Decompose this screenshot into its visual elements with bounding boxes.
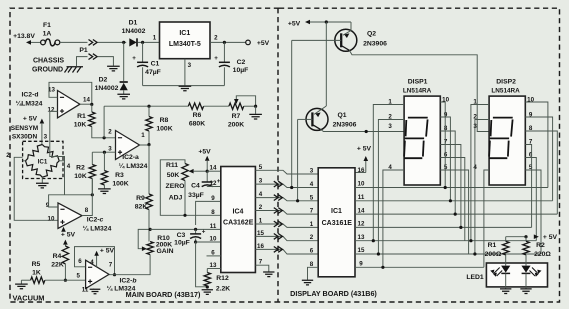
- svg-text:100K: 100K: [156, 126, 172, 133]
- wire DISP1 pin 5: [440, 170, 468, 254]
- wire IC2-b feedback pin 6 loop: [75, 247, 115, 275]
- svg-text:IC1: IC1: [331, 208, 342, 215]
- wire fuse to P1: [60, 41, 88, 43]
- wire interconnect row 1: [255, 170, 318, 174]
- wire +5V node to IC4 pin 14: [207, 170, 221, 172]
- wire R1 to IC2-a pin 2: [92, 127, 116, 138]
- svg-text:CHASSIS: CHASSIS: [33, 58, 64, 65]
- capacitor C4 33uF: [206, 171, 208, 182]
- svg-text:+ 5V: + 5V: [543, 234, 558, 241]
- svg-text:+: +: [214, 55, 218, 62]
- wire Q1 base: [298, 118, 313, 120]
- svg-text:9: 9: [211, 195, 215, 202]
- regulator IC1 LM340T-5: [160, 22, 211, 59]
- main board dashed border: [10, 8, 279, 302]
- svg-text:1N4002: 1N4002: [122, 28, 146, 35]
- svg-text:2.2K: 2.2K: [216, 286, 230, 293]
- svg-text:D1: D1: [129, 20, 138, 27]
- wire R10 wiper to pin 11 bus: [138, 229, 150, 248]
- wire segment bus 5: [355, 240, 536, 242]
- bridge resistor bottom-left: [26, 161, 43, 177]
- svg-text:1: 1: [310, 221, 314, 228]
- svg-text:R2: R2: [536, 242, 545, 249]
- wire Q2 base: [292, 39, 342, 41]
- svg-text:1: 1: [259, 218, 263, 225]
- svg-text:1: 1: [141, 132, 145, 139]
- resistor R2 10K: [91, 152, 93, 164]
- display DISP2 LN514RA: [489, 96, 525, 185]
- wire DISP1 pin 4: [383, 170, 404, 267]
- potentiometer R11 50K ZERO ADJ: [182, 164, 188, 181]
- svg-text:12: 12: [48, 107, 55, 114]
- svg-text:1A: 1A: [43, 31, 52, 38]
- wire IC1 pin 8 to ground: [308, 267, 319, 280]
- svg-text:+5V: +5V: [198, 149, 211, 156]
- svg-text:+ 5V: + 5V: [61, 232, 76, 239]
- ground below D2: [117, 94, 130, 99]
- wire DISP2 pin 5: [525, 170, 541, 254]
- svg-text:R11: R11: [166, 162, 178, 169]
- wire P1 to D1: [98, 41, 127, 43]
- wire DISP2 pin 6: [525, 158, 536, 241]
- svg-text:C3: C3: [177, 232, 186, 239]
- svg-text:10: 10: [48, 216, 55, 223]
- svg-text:5: 5: [259, 164, 263, 171]
- svg-text:Q1: Q1: [337, 112, 346, 119]
- ground at P1: [107, 66, 120, 71]
- svg-text:15: 15: [358, 247, 365, 254]
- svg-text:16: 16: [257, 243, 264, 250]
- wire interconnect row 5: [255, 224, 318, 227]
- svg-text:4: 4: [90, 259, 94, 266]
- svg-text:10µF: 10µF: [233, 67, 249, 74]
- wire Q2 collector to DISP2 pin 3: [349, 50, 489, 131]
- svg-text:2: 2: [259, 204, 263, 211]
- wire DISP1 pin 6: [440, 158, 465, 241]
- svg-text:10: 10: [358, 181, 365, 188]
- svg-text:4: 4: [67, 163, 71, 170]
- node +5V output terminal: [246, 40, 251, 45]
- svg-text:R4: R4: [53, 253, 62, 260]
- ground at R5 vacuum port: [20, 280, 22, 284]
- wire Q1 collector to DISP1 pin 3: [321, 129, 405, 131]
- wire IC2-c feedback pin 9 loop: [49, 195, 93, 207]
- svg-text:6: 6: [310, 248, 314, 255]
- wire LED +5V feed: [506, 236, 526, 238]
- wire C3 to IC4 pin 10: [196, 241, 221, 243]
- IC2-b +5V supply pin 4: [96, 255, 98, 267]
- wire IC2-c output: [82, 179, 92, 216]
- connector chevron row 2: [274, 181, 283, 187]
- svg-text:12: 12: [210, 180, 217, 187]
- svg-text:11: 11: [358, 194, 365, 201]
- wire IC2-d pin 12 to sensor pin 4 node: [50, 111, 65, 160]
- wire Q1 base to IC4 pin 4 row: [297, 119, 299, 200]
- wire DISP2 pin 1: [471, 105, 489, 241]
- svg-text:3: 3: [388, 123, 392, 130]
- wire segment bus 3: [355, 213, 557, 215]
- svg-text:220Ω: 220Ω: [534, 251, 551, 258]
- svg-text:IC2-c: IC2-c: [87, 217, 104, 224]
- svg-text:33µF: 33µF: [188, 192, 204, 199]
- svg-text:1: 1: [153, 35, 157, 42]
- IC2-c +5V supply arrow: [61, 227, 66, 232]
- capacitor C1 47uF: [142, 42, 144, 62]
- svg-text:22K: 22K: [51, 262, 64, 269]
- wire feedback rail: [104, 105, 188, 107]
- svg-text:¼LM324: ¼LM324: [16, 100, 43, 108]
- ground below R12: [202, 290, 213, 295]
- svg-text:IC4: IC4: [233, 209, 244, 216]
- wire interconnect row 2: [255, 184, 318, 187]
- svg-text:C4: C4: [191, 183, 200, 190]
- svg-text:2N3906: 2N3906: [363, 41, 387, 48]
- svg-text:7: 7: [259, 259, 263, 266]
- wire D1 to IC1 pin 1: [138, 41, 160, 43]
- decoder IC1 CA3161E: [318, 168, 355, 277]
- svg-text:12: 12: [358, 221, 365, 228]
- svg-text:9: 9: [46, 202, 50, 209]
- svg-text:DISPLAY BOARD (431B6): DISPLAY BOARD (431B6): [290, 289, 377, 298]
- svg-text:11: 11: [82, 287, 89, 294]
- wire interconnect row 3: [255, 198, 318, 201]
- resistor R4 22K: [64, 244, 66, 246]
- svg-text:C1: C1: [151, 61, 160, 68]
- svg-text:10K: 10K: [74, 173, 87, 180]
- wire DISP1 pin 10: [440, 102, 445, 188]
- svg-text:R8: R8: [160, 117, 169, 124]
- svg-text:C2: C2: [237, 59, 246, 66]
- wire C4 to IC4 pin 12: [207, 186, 221, 188]
- svg-text:13: 13: [210, 262, 217, 269]
- LED1 left diode: [505, 255, 507, 266]
- capacitor C2 10uF: [223, 42, 225, 62]
- svg-text:LN514RA: LN514RA: [491, 88, 520, 95]
- svg-text:7: 7: [310, 208, 314, 215]
- wire P1 ground to earth: [98, 57, 114, 66]
- svg-text:IC1: IC1: [38, 159, 48, 166]
- svg-text:VACUUM: VACUUM: [13, 293, 45, 302]
- svg-text:IC2-b: IC2-b: [120, 278, 137, 285]
- svg-text:3: 3: [310, 168, 314, 175]
- wire DISP1 pin 9: [440, 117, 450, 201]
- svg-text:R1: R1: [77, 113, 86, 120]
- LED1 dual indicator box: [486, 263, 547, 287]
- wire R6 to R7: [204, 105, 229, 107]
- IC2-c/R4 +5V arrow up from R4: [63, 240, 68, 245]
- svg-text:9: 9: [359, 261, 363, 268]
- wire segment bus 4: [355, 226, 532, 228]
- svg-text:+5V: +5V: [288, 21, 301, 28]
- display board dashed border: [279, 8, 560, 302]
- node D2 branch junction: [122, 41, 125, 44]
- svg-text:10: 10: [442, 97, 449, 104]
- capacitor C3 10uF: [195, 229, 197, 234]
- connector chevron row 3: [274, 195, 283, 201]
- svg-text:10K: 10K: [74, 122, 87, 129]
- svg-text:IC2-a: IC2-a: [122, 154, 139, 161]
- svg-text:5: 5: [310, 194, 314, 201]
- IC2-b pin 11 ground: [93, 288, 95, 291]
- svg-text:IC1: IC1: [179, 30, 190, 37]
- DISP2 digit segments: [493, 117, 513, 119]
- wire IC4 pin 13 to R12: [207, 268, 221, 270]
- svg-text:10: 10: [527, 97, 534, 104]
- op-amp IC2-a 1/4 LM324: [116, 131, 140, 160]
- A/D converter IC4 CA3162E: [221, 167, 256, 273]
- svg-text:14: 14: [83, 97, 90, 104]
- wire R8 to IC2-a output: [148, 131, 150, 145]
- svg-text:5: 5: [76, 273, 80, 280]
- svg-text:16: 16: [358, 167, 365, 174]
- svg-text:200Ω: 200Ω: [485, 251, 502, 258]
- wire DISP2 pin 9: [525, 117, 552, 201]
- wire IC1 pin 2 to +5V terminal: [210, 41, 246, 43]
- svg-text:R1: R1: [488, 242, 497, 249]
- svg-text:IC2-d: IC2-d: [22, 92, 39, 99]
- svg-text:15: 15: [257, 230, 264, 237]
- svg-text:+13.8V: +13.8V: [13, 33, 35, 40]
- svg-text:+: +: [202, 229, 206, 236]
- wire pin 11 rail to IC4: [150, 228, 221, 230]
- resistor R1 200 ohm: [505, 237, 507, 242]
- svg-text:+ 5V: + 5V: [23, 115, 38, 122]
- wire pin2 node up to feedback rail: [103, 106, 105, 138]
- svg-text:6: 6: [211, 249, 215, 256]
- svg-text:MAIN BOARD (43B17): MAIN BOARD (43B17): [126, 290, 201, 299]
- svg-text:100K: 100K: [112, 181, 128, 188]
- wire interconnect row 6: [255, 236, 318, 240]
- svg-text:14: 14: [358, 207, 365, 214]
- wire IC2-d output: [80, 103, 92, 105]
- svg-text:R6: R6: [193, 112, 202, 119]
- wire R11 wiper to +5V node: [194, 170, 208, 172]
- svg-text:F1: F1: [43, 22, 51, 29]
- svg-text:7: 7: [109, 262, 113, 269]
- ground below left LED: [500, 289, 511, 294]
- wire IC1 pin 3 ground rail: [184, 59, 186, 86]
- svg-text:2: 2: [310, 234, 314, 241]
- ground at R7: [249, 114, 262, 119]
- svg-text:SENSYM: SENSYM: [11, 125, 38, 132]
- wire DISP1 pin 7: [440, 145, 461, 228]
- svg-text:DISP2: DISP2: [496, 79, 516, 86]
- wire R5 to IC2-b pin 5: [45, 279, 86, 281]
- svg-text:ADJ: ADJ: [169, 195, 183, 202]
- bridge resistor bottom-right: [42, 161, 59, 177]
- bridge resistor top-right: [42, 145, 59, 161]
- svg-text:14: 14: [210, 165, 217, 172]
- svg-text:82K: 82K: [135, 203, 148, 210]
- svg-text:13: 13: [358, 234, 365, 241]
- svg-text:R2: R2: [76, 165, 85, 172]
- svg-text:8: 8: [85, 207, 89, 214]
- svg-text:3: 3: [188, 62, 192, 69]
- svg-text:8: 8: [310, 261, 314, 268]
- svg-text:LN514RA: LN514RA: [403, 88, 432, 95]
- display DISP1 LN514RA: [404, 96, 440, 185]
- wire interconnect row 4: [255, 211, 318, 215]
- svg-text:+ 5V: + 5V: [100, 248, 115, 255]
- svg-text:R7: R7: [232, 113, 241, 120]
- svg-text:DISP1: DISP1: [408, 79, 428, 86]
- svg-text:680K: 680K: [189, 121, 205, 128]
- resistor R12 2.2K: [206, 269, 208, 273]
- svg-text:200K: 200K: [228, 122, 244, 129]
- IC4 pin 6 stub: [207, 255, 221, 257]
- svg-text:+: +: [132, 55, 136, 62]
- wire IC4 pin 7 to ground: [255, 265, 268, 271]
- svg-text:Q2: Q2: [367, 31, 376, 38]
- connector chevron row 4: [274, 208, 283, 214]
- svg-text:P1: P1: [79, 47, 88, 54]
- svg-text:1N4002: 1N4002: [95, 85, 119, 92]
- ground IC1 rail: [179, 86, 192, 91]
- svg-text:50K: 50K: [167, 172, 180, 179]
- svg-text:ZERO: ZERO: [166, 183, 185, 190]
- svg-text:LED1: LED1: [466, 274, 484, 281]
- wire DISP1 pin 1: [373, 105, 404, 241]
- svg-text:6: 6: [78, 258, 82, 265]
- transistor Q2 2N3906: [335, 29, 357, 51]
- svg-text:+5V: +5V: [257, 40, 270, 47]
- wire IC2-a pin 3 input: [92, 151, 115, 153]
- svg-text:2N3906: 2N3906: [333, 122, 357, 129]
- DISP1 digit segments: [408, 117, 428, 119]
- connector chevron row 5: [274, 221, 283, 227]
- svg-text:CA3162E: CA3162E: [223, 220, 254, 227]
- svg-text:GROUND: GROUND: [32, 67, 63, 74]
- wire IC2-a output: [140, 144, 150, 146]
- wire Q2 base to IC4 pin 3 row: [291, 40, 293, 187]
- svg-text:2: 2: [214, 35, 218, 42]
- svg-text:11: 11: [210, 223, 217, 230]
- wire +5V tap to IC1 pin 16: [365, 160, 367, 172]
- svg-text:3: 3: [108, 146, 112, 153]
- wire segment bus 6: [355, 253, 541, 255]
- wire IC2-b output to gain chain: [109, 255, 150, 275]
- svg-text:2: 2: [108, 129, 112, 136]
- svg-text:8: 8: [211, 209, 215, 216]
- sensor ground: [41, 177, 43, 183]
- wire segment bus 7: [355, 266, 484, 268]
- connector chevron row 6: [274, 234, 283, 240]
- op-amp IC2-c 1/4 LM324: [58, 203, 82, 229]
- wire C3 to analog ground: [196, 242, 208, 287]
- board divider dashed line: [277, 8, 279, 302]
- svg-text:¼ LM324: ¼ LM324: [83, 225, 112, 233]
- svg-text:3: 3: [44, 133, 48, 140]
- svg-text:2: 2: [6, 152, 10, 159]
- resistor R6 680K: [188, 103, 203, 109]
- wire IC2-d feedback loop pin 13 to output: [49, 82, 92, 103]
- potentiometer R10 200K GAIN: [147, 242, 153, 255]
- wire segment bus 2: [355, 200, 553, 202]
- resistor R2 220 ohm: [525, 237, 527, 242]
- svg-text:R9: R9: [136, 195, 145, 202]
- wire DISP2 pin 4: [484, 170, 489, 267]
- svg-text:SX30DN: SX30DN: [12, 133, 38, 140]
- op-amp IC2-d 1/4 LM324: [58, 91, 80, 118]
- wire DISP2 pin 10: [525, 102, 548, 188]
- potentiometer R7 200K: [229, 103, 244, 109]
- resistor R8 100K: [148, 106, 150, 116]
- svg-text:10µF: 10µF: [174, 240, 190, 247]
- svg-text:47µF: 47µF: [145, 69, 161, 76]
- svg-text:4: 4: [310, 181, 314, 188]
- ground below right LED: [520, 289, 531, 294]
- wire DISP1 pin 8: [440, 131, 455, 214]
- op-amp IC2-b 1/4 LM324: [86, 260, 109, 288]
- resistor R3 100K: [103, 152, 105, 170]
- bridge resistor top-left: [26, 145, 43, 161]
- wire DISP1 pin 2: [378, 120, 404, 255]
- svg-text:+ 5V: + 5V: [357, 145, 372, 152]
- wire DISP2 pin 7: [525, 145, 531, 228]
- wire chassis to P1 ground pin: [77, 57, 88, 67]
- ground below R3: [98, 189, 111, 194]
- wire R9 to C3 node: [148, 210, 150, 242]
- wire segment bus 1: [355, 187, 548, 189]
- svg-text:10: 10: [210, 236, 217, 243]
- svg-text:R3: R3: [115, 172, 124, 179]
- wire DISP2 pin 8: [525, 131, 557, 214]
- wire DISP2 pin 2: [475, 120, 489, 255]
- wire R11 ends loop to pin 8: [160, 160, 221, 216]
- transistor Q1 2N3906: [325, 22, 327, 106]
- svg-text:R12: R12: [216, 275, 229, 282]
- wire IC4 pin 9 to C3 node: [196, 201, 221, 225]
- resistor R1 10K: [91, 104, 93, 112]
- svg-text:D2: D2: [99, 77, 108, 84]
- connector chevron row 7: [274, 247, 283, 253]
- svg-text:3: 3: [259, 178, 263, 185]
- svg-text:4: 4: [259, 191, 263, 198]
- resistor R9 82K: [148, 145, 150, 194]
- LED1 right diode: [525, 255, 527, 266]
- connector P1 power pin: [89, 40, 98, 46]
- svg-text:LM340T-5: LM340T-5: [169, 41, 201, 48]
- wire interconnect row 7: [255, 249, 318, 254]
- svg-text:GAIN: GAIN: [157, 248, 174, 255]
- wire R7 to ground: [244, 105, 256, 107]
- svg-text:CA3161E: CA3161E: [322, 220, 353, 227]
- svg-text:¼ LM324: ¼ LM324: [119, 162, 148, 170]
- connector P1 ground pin: [89, 54, 98, 60]
- svg-text:R5: R5: [32, 261, 41, 268]
